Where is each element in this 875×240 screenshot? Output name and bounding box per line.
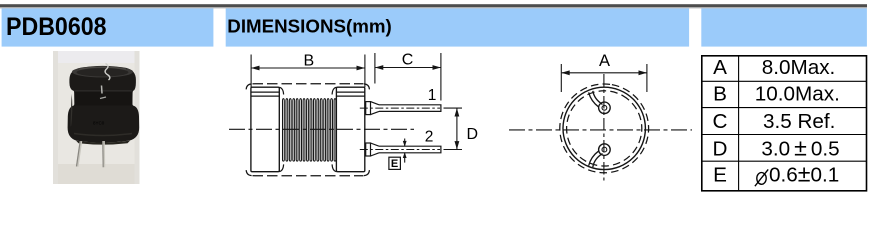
right flange outline (336, 87, 364, 172)
A arrowhead right (639, 70, 647, 75)
dashed outline top-left curl (246, 84, 251, 90)
lead 1 root stub (366, 102, 371, 115)
left flange cap lines (251, 92, 279, 96)
dashed outline top-right curl (364, 84, 369, 90)
svg-text:C: C (402, 52, 414, 69)
C arrowhead right (433, 65, 441, 70)
svg-text:1: 1 (428, 87, 437, 104)
C extension line right (440, 53, 442, 101)
left flange outline (251, 87, 279, 172)
C arrowhead left (375, 65, 383, 70)
inner dashed circle (553, 77, 656, 180)
lead 1 bar (379, 105, 441, 112)
lead hole bottom: outer ring (599, 144, 611, 156)
svg-text:A: A (713, 56, 727, 79)
svg-text:D: D (467, 126, 479, 143)
dashed outline bottom-left curl (246, 170, 251, 176)
winding turns (283, 99, 336, 161)
inductor body silhouette (68, 66, 140, 143)
body solid circle (563, 87, 645, 169)
C dimension line (375, 67, 440, 69)
lead 1 axis centerline (360, 107, 440, 109)
E arrow line lower (404, 153, 406, 162)
C extension line left (374, 53, 376, 84)
E arrowhead up (403, 152, 407, 158)
right flange bottom shoulder (332, 164, 336, 171)
svg-text:2: 2 (425, 129, 434, 146)
svg-text:B: B (713, 82, 727, 105)
svg-text:PDB0608: PDB0608 (6, 13, 107, 41)
D arrowhead top (455, 108, 460, 116)
D arrowhead bottom (455, 141, 460, 149)
B arrowhead left (251, 66, 259, 71)
header cell: part number background (2, 8, 214, 46)
photo background (53, 51, 140, 184)
svg-text:8.0Max.: 8.0Max. (762, 56, 836, 79)
A dimension line (562, 72, 647, 74)
outer dashed circle (max outline) (553, 77, 656, 180)
B dimension line (252, 67, 365, 69)
lead hole bottom: inner circle (602, 147, 607, 152)
lead 2 taper (371, 143, 380, 156)
centerline vertical (top view) (603, 74, 605, 181)
svg-text:C: C (713, 110, 728, 133)
dashed outline bottom-right curl (364, 170, 369, 176)
right flange top shoulder (332, 87, 336, 94)
svg-text:B: B (303, 53, 314, 70)
diameter symbol (755, 169, 768, 186)
dashed max-outline bottom (253, 175, 364, 177)
svg-text:3.0±0.5: 3.0±0.5 (761, 135, 839, 161)
svg-text:DIMENSIONS(mm): DIMENSIONS(mm) (227, 15, 391, 36)
right flange cap lines (337, 92, 365, 96)
E arrow line upper (404, 139, 406, 146)
lead 2 root stub (366, 143, 371, 156)
lead 2 axis centerline (360, 149, 440, 151)
photo of inductor (53, 51, 140, 184)
left flange top shoulder (279, 87, 283, 94)
B extension line right (364, 55, 366, 88)
lead left (76, 141, 82, 167)
A extension line left (560, 64, 562, 92)
flange lip edge (75, 90, 132, 92)
E arrowhead down (403, 141, 407, 147)
E label box (389, 157, 401, 169)
svg-text:3.5 Ref.: 3.5 Ref. (763, 110, 835, 133)
table row lines (702, 80, 867, 82)
svg-text:E: E (391, 158, 398, 170)
B extension line left (250, 55, 252, 88)
lead hole top: inner circle (602, 105, 607, 110)
dashed max-outline top (253, 83, 364, 85)
A arrowhead left (561, 70, 569, 75)
D extension line upper (444, 107, 463, 109)
lead hole top: outer ring (599, 102, 611, 114)
lead 1 taper (371, 102, 380, 115)
svg-text:0.6±0.1: 0.6±0.1 (769, 160, 839, 186)
table column separator (738, 56, 740, 191)
lead 2 bar (379, 146, 441, 153)
side sheen left (71, 94, 73, 127)
top horizontal rule (0, 4, 867, 7)
table outer border (702, 56, 867, 191)
wire hook bottom (589, 151, 599, 166)
bottom flange sheen band (74, 134, 132, 136)
header cell: dimensions background (226, 8, 689, 46)
svg-text:10.0Max.: 10.0Max. (755, 82, 840, 105)
neck shading (74, 91, 132, 106)
left flange bottom shoulder (279, 164, 283, 171)
wire hook top (589, 92, 599, 107)
white marking squiggle on body (105, 64, 110, 81)
lead right (102, 141, 105, 167)
header cell: right background (701, 8, 867, 46)
D extension line lower (444, 149, 463, 151)
A extension line right (646, 64, 648, 92)
B arrowhead right (357, 66, 365, 71)
centerline horizontal (side view) (229, 128, 414, 130)
svg-text:D: D (713, 138, 728, 161)
centerline horizontal (top view) (509, 129, 692, 131)
shadow under body (76, 141, 130, 145)
E wire-diameter callout (389, 139, 405, 170)
top face dome (72, 66, 133, 77)
svg-text:8YC0: 8YC0 (93, 121, 105, 126)
svg-text:E: E (713, 163, 727, 186)
D dimension line (456, 109, 458, 150)
svg-text:A: A (599, 52, 610, 70)
